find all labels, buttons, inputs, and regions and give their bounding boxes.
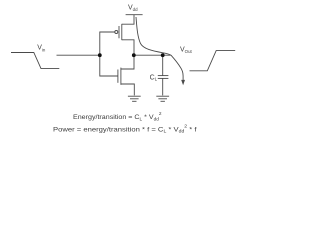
current arrow curve from Vdd to CL: [136, 17, 183, 81]
wire capacitor node down to CL top plate: [162, 55, 164, 75]
pmos Q1 bubble: [115, 31, 118, 34]
pmos Q1 gate bar: [118, 26, 120, 38]
wire input to gate node: [57, 54, 100, 56]
svg-text:VOut: VOut: [180, 46, 193, 54]
Vdd rail: [126, 14, 143, 16]
svg-text:Vin: Vin: [37, 45, 46, 53]
pmos Q1 source wire to Vdd: [122, 15, 134, 25]
nmos Q2 gate bar: [117, 70, 119, 83]
ground under nmos: [128, 96, 141, 101]
pmos Q1 drain wire to output node: [122, 40, 134, 55]
svg-text:CL: CL: [150, 74, 158, 81]
output waveform Vout rising edge: [190, 51, 236, 71]
current arrow head: [181, 80, 185, 85]
ground under capacitor CL: [156, 96, 169, 101]
capacitor CL plates: [158, 76, 169, 79]
node: capacitor junction: [161, 53, 165, 57]
wire CL bottom plate to ground: [162, 78, 164, 95]
svg-text:Vdd: Vdd: [128, 5, 138, 13]
svg-text:Power = energy/transition * f: Power = energy/transition * f = CL * Vdd…: [53, 123, 197, 133]
node: output junction: [132, 53, 136, 57]
node: input gate junction: [98, 53, 102, 57]
wire gate node down to nmos gate: [100, 55, 118, 76]
input waveform Vin falling edge: [11, 53, 59, 69]
nmos Q2 drain wire to output node: [121, 55, 134, 69]
nmos Q2 source wire to ground: [121, 84, 134, 95]
pmos Q1 channel bar: [121, 24, 123, 40]
nmos Q2 channel bar: [120, 68, 122, 85]
svg-text:Energy/transition = CL * Vdd2: Energy/transition = CL * Vdd2: [73, 111, 162, 121]
wire gate node up to pmos gate: [100, 32, 115, 55]
wire output node to capacitor node: [134, 54, 171, 56]
